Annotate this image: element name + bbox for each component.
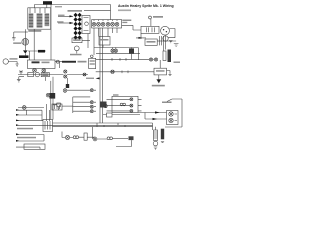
wire drop to cluster bbox=[110, 5, 112, 20]
cluster label right bbox=[122, 20, 131, 22]
bm lamp bbox=[93, 137, 97, 141]
heater top box bbox=[52, 104, 62, 110]
lamp block outline bbox=[73, 97, 90, 113]
wire right bus join bbox=[165, 126, 182, 128]
wiper motor hatch bbox=[45, 121, 50, 130]
fuse lamp 2 bbox=[42, 68, 46, 72]
fuse label text bbox=[73, 39, 81, 41]
wire cluster to starter bbox=[122, 25, 141, 30]
starter solenoid box bbox=[141, 26, 159, 33]
bl text 2 bbox=[17, 137, 36, 139]
panel row 2 bbox=[107, 104, 130, 106]
small lamp pair b bbox=[64, 75, 67, 78]
snap connectors grid bbox=[74, 13, 82, 40]
arrowhead feed 2 bbox=[70, 22, 74, 24]
wire blob drop bbox=[29, 51, 31, 60]
row2 end lamp bbox=[90, 105, 93, 108]
chain box 2 bbox=[41, 73, 49, 77]
ignition feed blob bbox=[38, 50, 45, 53]
wire feed 2 bbox=[58, 22, 73, 24]
wire heater right bbox=[62, 105, 73, 107]
mid lamp b bbox=[114, 49, 117, 52]
tail feed 1 bbox=[138, 112, 167, 114]
wire cluster drop x94 bbox=[93, 28, 95, 55]
wire ign box drop bbox=[102, 45, 104, 48]
bl vertical joins bbox=[27, 110, 43, 120]
bl row 7 bbox=[16, 146, 40, 148]
control box caption bbox=[28, 30, 41, 32]
wire header bbox=[84, 10, 111, 12]
mid dark comp drop bbox=[131, 48, 133, 60]
panel row 3 bbox=[107, 110, 130, 112]
panel lamp 4 bbox=[106, 22, 110, 26]
bl row join bbox=[40, 135, 44, 150]
wire top bus bbox=[35, 4, 111, 6]
wire feed 1 bbox=[58, 15, 73, 17]
wiper box text bbox=[156, 70, 165, 72]
mid drops bbox=[113, 48, 116, 54]
flasher box bbox=[89, 58, 96, 68]
gauge circle bbox=[74, 46, 79, 51]
wire bus to resistor bbox=[153, 123, 156, 130]
row2 pair bbox=[120, 103, 123, 106]
wiper box wire top bbox=[159, 60, 161, 68]
ignition coil bbox=[22, 38, 29, 45]
long wire y71.8 bbox=[96, 71, 154, 73]
wire drops x108-117 bbox=[108, 28, 117, 37]
panel caption bbox=[113, 94, 119, 95]
wiper motor wires bbox=[51, 77, 53, 120]
fuse label box bbox=[72, 38, 82, 43]
bl row 5 end bbox=[16, 133, 19, 135]
row3 lamp bbox=[130, 109, 133, 112]
fuse text left bbox=[32, 61, 40, 63]
horn text bbox=[10, 58, 18, 59]
mid lamp a bbox=[111, 49, 114, 52]
wire dip row bbox=[67, 89, 90, 91]
chain ext lamp bbox=[83, 73, 86, 76]
tail lamp box bbox=[167, 111, 179, 125]
horn bbox=[3, 59, 8, 64]
mid bus y59.4 bbox=[96, 58, 140, 60]
junction box right of snaps bbox=[82, 16, 90, 34]
lamp block row 3 bbox=[73, 110, 90, 112]
petrol end circle bbox=[56, 60, 59, 63]
arrow small bbox=[139, 37, 142, 39]
heater top hatch bbox=[55, 105, 60, 109]
petrol wire bbox=[55, 62, 62, 68]
wire solenoid down bbox=[136, 33, 146, 39]
wire terminal drop bbox=[150, 19, 152, 26]
cluster label right 2 bbox=[122, 22, 127, 23]
right slant wire bbox=[167, 99, 182, 127]
wiper arrow down bbox=[157, 75, 161, 83]
row1 end lamp bbox=[90, 101, 93, 104]
tail lamp 1 bbox=[169, 112, 173, 116]
mid bus y47.5 bbox=[94, 47, 138, 49]
mid dark comp bbox=[129, 48, 134, 53]
gauge text row bbox=[70, 54, 82, 56]
bl flat box bbox=[24, 144, 45, 149]
wire horn bbox=[8, 62, 17, 65]
bus junction ticks bbox=[97, 123, 125, 127]
panel lamp 2 bbox=[97, 22, 101, 26]
bm comp dark bbox=[129, 136, 134, 140]
wire right vert bbox=[137, 48, 139, 61]
petrol text right bbox=[78, 61, 87, 63]
ground right of wiper bbox=[167, 71, 172, 76]
solenoid hatch bbox=[147, 27, 155, 32]
bm wire 2 bbox=[113, 137, 129, 139]
fuse lamp 1 bbox=[33, 68, 37, 72]
bc comp tall bbox=[84, 133, 87, 140]
mid bus y53.4 bbox=[96, 52, 140, 54]
tail ticks bbox=[175, 114, 178, 121]
wire control box to fuse bbox=[33, 29, 35, 60]
fuse text right bbox=[42, 62, 50, 64]
q3 comp pair wire bbox=[53, 105, 59, 110]
wire heater drop bbox=[47, 104, 50, 121]
HT arrow bbox=[23, 50, 28, 53]
row3 end lamp bbox=[90, 110, 93, 113]
ground left of coil bbox=[12, 32, 16, 40]
bl row 4 end bbox=[16, 124, 19, 126]
q3 bottom lamp bbox=[22, 106, 26, 110]
bm small box bbox=[107, 113, 113, 117]
wire bus drop to control box bbox=[35, 5, 47, 8]
control box terminals bbox=[30, 8, 45, 13]
bl row 2 end bbox=[16, 114, 19, 116]
dark comp ground bbox=[161, 142, 164, 143]
snap header text bbox=[68, 10, 83, 12]
fuel pump bbox=[153, 141, 158, 146]
bl row 3 bbox=[16, 120, 43, 122]
wire cluster drop x98 bbox=[98, 28, 100, 37]
row1 lamp bbox=[130, 98, 133, 101]
panel exits bbox=[138, 99, 142, 111]
long bus 3 y126.7 bbox=[53, 126, 153, 128]
bl row 5 bbox=[16, 134, 44, 136]
ignition feed wire bbox=[28, 50, 46, 52]
bl row 1 bbox=[16, 109, 42, 111]
svg-text:Austin Healey Sprite Mk. 1 Wir: Austin Healey Sprite Mk. 1 Wiring bbox=[118, 4, 174, 8]
dynamo terminal label bbox=[149, 16, 152, 19]
dark comp right bbox=[161, 129, 164, 140]
right slant text bbox=[162, 102, 172, 104]
solenoid blob on bus bbox=[43, 1, 52, 4]
q3 bottom row bbox=[18, 107, 44, 109]
bm pair bbox=[107, 137, 110, 140]
small lamp pair a bbox=[64, 70, 67, 73]
junction blob bbox=[100, 102, 107, 108]
panel row 1 bbox=[107, 98, 130, 100]
long bus 2 y123 bbox=[53, 122, 153, 124]
dash lamp a bbox=[149, 58, 152, 61]
ground dynamo bbox=[169, 41, 173, 43]
wire control box to coil bbox=[24, 29, 26, 38]
bl row 4 bbox=[16, 124, 153, 126]
wiper motor blob bbox=[49, 93, 55, 99]
fp resistor hatch bbox=[154, 132, 158, 138]
wire chain drop bbox=[44, 77, 46, 81]
distributor dark bar bbox=[19, 55, 29, 58]
regulator coil 2 bbox=[37, 14, 43, 28]
bus tick label bbox=[96, 77, 100, 79]
junction box circle bbox=[85, 22, 89, 26]
subtitle text bbox=[118, 10, 131, 12]
bl row 3 end bbox=[16, 120, 19, 122]
panel lamp 5 bbox=[111, 22, 115, 26]
bl row 6 end bbox=[16, 140, 19, 142]
lamp block row 1 bbox=[73, 101, 90, 103]
starter motor bbox=[163, 36, 168, 41]
fuse box A bbox=[28, 60, 56, 69]
row2 lamp bbox=[130, 104, 133, 107]
mid ticks y59 bbox=[112, 58, 126, 61]
coil hatch bbox=[24, 39, 27, 45]
dip relay wire bbox=[67, 78, 69, 84]
flasher circle bbox=[91, 55, 94, 58]
bc wires bbox=[62, 136, 95, 138]
wire dash lamps bbox=[140, 58, 154, 60]
y71.8 lamp bbox=[111, 70, 114, 73]
dynamo terminal text bbox=[153, 16, 163, 18]
wire chain row bbox=[18, 74, 55, 76]
gauge wire bbox=[76, 51, 78, 54]
switch text bbox=[147, 41, 156, 43]
cluster ticks bbox=[94, 20, 117, 21]
stalk switch bbox=[19, 71, 23, 75]
panel lamp 1 bbox=[92, 22, 96, 26]
panel lamp 6 bbox=[115, 22, 119, 26]
flasher text 1 bbox=[90, 60, 95, 61]
wiper motor lamp bbox=[46, 93, 50, 97]
dip row lamp bbox=[90, 89, 93, 92]
bm small box wires bbox=[103, 114, 140, 116]
wire snaps to jbox bbox=[88, 39, 90, 41]
bm wire bbox=[93, 127, 107, 139]
fp ground bbox=[154, 147, 157, 149]
lighting switch box bbox=[145, 39, 157, 45]
wire dynamo loop bbox=[168, 29, 175, 38]
q3 comp pair bbox=[57, 103, 61, 107]
switch panel box bbox=[112, 96, 138, 112]
dip relay blob bbox=[66, 84, 69, 88]
ign switch text bbox=[101, 39, 109, 41]
dip lamp bbox=[63, 89, 67, 93]
instrument cluster box bbox=[92, 20, 122, 28]
bc lamp 1 bbox=[65, 135, 69, 139]
wire comb verticals bbox=[160, 36, 166, 51]
tail arrow 1 bbox=[155, 111, 160, 113]
panel lamp 3 bbox=[101, 22, 105, 26]
ground horn bbox=[16, 64, 19, 66]
tail arrow 2 bbox=[153, 118, 158, 120]
petrol dark bar bbox=[62, 61, 76, 63]
lamp block row 2 bbox=[73, 106, 90, 108]
bl row 1 end bbox=[16, 109, 19, 111]
flasher text 2 bbox=[90, 63, 95, 64]
wire lamp pair bbox=[55, 74, 88, 76]
label feed 2 bbox=[57, 21, 64, 22]
bus label text bbox=[55, 6, 62, 7]
chain circle bbox=[35, 72, 39, 76]
dash lamp b bbox=[154, 58, 157, 61]
chain box 1 bbox=[28, 73, 34, 77]
wire switch right bbox=[157, 40, 167, 42]
bl row 6 bbox=[16, 140, 44, 142]
central bus B bbox=[102, 28, 104, 123]
text top right small bbox=[174, 62, 181, 63]
chain box 2 fill bbox=[42, 73, 48, 76]
wire jbox vertical bbox=[82, 34, 88, 49]
junction lamp bbox=[104, 104, 107, 107]
coil label bbox=[13, 42, 21, 44]
wiper caption bbox=[152, 85, 165, 87]
regulator coil 1 bbox=[29, 14, 34, 28]
bus tick text bbox=[86, 78, 94, 79]
wire ground-coil bbox=[14, 31, 28, 33]
bc drop bbox=[61, 132, 63, 138]
regulator coil 3 bbox=[45, 14, 50, 27]
resistor col dark bbox=[168, 50, 172, 63]
resistor col light bbox=[163, 51, 166, 61]
label feed 1 bbox=[58, 15, 65, 16]
wire HT down bbox=[24, 54, 26, 56]
q3 ground bbox=[17, 77, 24, 82]
arrowhead feed 1 bbox=[70, 15, 74, 17]
dynamo bbox=[161, 26, 170, 35]
bl text 1 bbox=[17, 128, 33, 130]
wiper box bbox=[154, 68, 167, 75]
tail feed 2 bbox=[145, 113, 167, 120]
wire vertical bus x51 bbox=[50, 5, 52, 61]
dynamo brushes bbox=[163, 29, 164, 30]
tail lamp 2 bbox=[169, 118, 173, 122]
lamp col connector bbox=[94, 90, 96, 111]
control box RB106 bbox=[28, 8, 51, 29]
wiper motor main box bbox=[43, 120, 53, 132]
bm drop bbox=[116, 140, 132, 146]
fuel pump resistor bbox=[154, 130, 158, 141]
central bus A bbox=[99, 28, 101, 123]
ignition switch box bbox=[99, 37, 110, 46]
junction box ticks bbox=[84, 18, 89, 31]
bc pair bbox=[73, 136, 76, 139]
wire coil down bbox=[24, 45, 26, 50]
bl row 2 bbox=[16, 114, 42, 116]
ground right of switch bbox=[168, 41, 179, 47]
y71.8 tick bbox=[122, 71, 128, 74]
